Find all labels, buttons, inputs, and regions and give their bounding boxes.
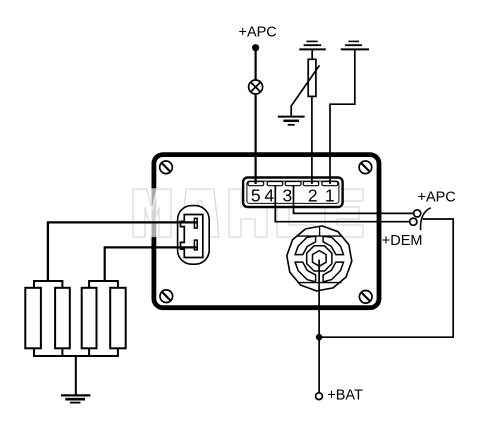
wire lamp to pin 5 [255, 94, 257, 184]
left connector pin slot upper [194, 218, 197, 228]
knob band SW [295, 262, 316, 282]
wire relay to glow plug pair 1 [48, 222, 197, 282]
svg-text:+BAT: +BAT [327, 388, 363, 404]
junction dot [316, 334, 323, 341]
wire ground to thermistor [311, 49, 313, 59]
terminal stud knob outer [287, 226, 352, 291]
wire switch to junction [320, 219, 453, 337]
svg-text:2: 2 [308, 185, 318, 205]
glow plug pair 2 top bar [89, 281, 118, 288]
knob band NW [295, 236, 316, 254]
inverted ground upper middle [299, 41, 326, 49]
wire stud to +BAT [318, 260, 320, 393]
pin slot 3 [285, 182, 301, 186]
glow plug pair 1 top bar [34, 281, 62, 288]
knob hex nut [313, 251, 327, 267]
glow plug 2 [55, 288, 70, 349]
glow plug 3 [82, 288, 97, 349]
svg-text:4: 4 [264, 185, 274, 205]
glow plug 1 [25, 288, 41, 349]
ground glow plugs [61, 395, 90, 402]
glow plug bottom bus [33, 355, 119, 357]
svg-text:+APC: +APC [418, 190, 456, 206]
screw bottom-left [160, 290, 173, 303]
left connector pin slot lower [194, 240, 197, 250]
thermistor R body [308, 59, 316, 96]
svg-text:1: 1 [325, 185, 335, 205]
wire right ground to pin 1 [330, 49, 355, 184]
svg-text:5: 5 [251, 185, 261, 205]
wire relay to glow plug pair 2 [105, 247, 197, 282]
svg-text:+APC: +APC [239, 25, 277, 41]
wire dot to lamp [255, 49, 257, 80]
terminal +BAT [316, 393, 323, 400]
wire pin 3 to switch [294, 185, 414, 213]
screw bottom-right [359, 291, 372, 304]
left connector profile [181, 215, 203, 258]
screw top-left [160, 161, 173, 174]
left connector housing [178, 206, 210, 265]
switch contact upper [414, 210, 421, 217]
watermark MAHLE [133, 188, 363, 237]
glow plug 4 [110, 288, 126, 349]
pin slot 2 [303, 182, 318, 186]
glow plug bottom stubs [34, 348, 118, 356]
indicator lamp [249, 80, 263, 94]
knob band NE [323, 236, 343, 254]
knob top seam [319, 226, 321, 236]
connector block outline [243, 178, 343, 208]
svg-text:3: 3 [283, 185, 293, 205]
switch blade arc [421, 208, 431, 230]
wire bus to ground [75, 356, 77, 395]
wire pin 4 to switch [275, 185, 409, 222]
inverted ground upper right [341, 41, 369, 49]
pin slot 1 [322, 182, 338, 186]
knob top chord [298, 235, 341, 237]
pin slot 5 [248, 182, 264, 186]
wire thermistor to pin 2 [311, 96, 313, 184]
svg-text:+DEM: +DEM [382, 233, 423, 249]
thermistor tap wire [290, 105, 292, 116]
screw top-right [359, 161, 372, 174]
relay box body [154, 155, 379, 308]
knob octagon [307, 246, 332, 271]
pin slot 4 [267, 182, 283, 186]
node dot under +APC [252, 44, 259, 51]
switch contact lower [410, 218, 417, 225]
knob bottom chord [297, 282, 341, 284]
ground thermistor tap [278, 117, 305, 125]
knob band SE [323, 262, 343, 282]
thermistor diagonal [291, 65, 319, 106]
